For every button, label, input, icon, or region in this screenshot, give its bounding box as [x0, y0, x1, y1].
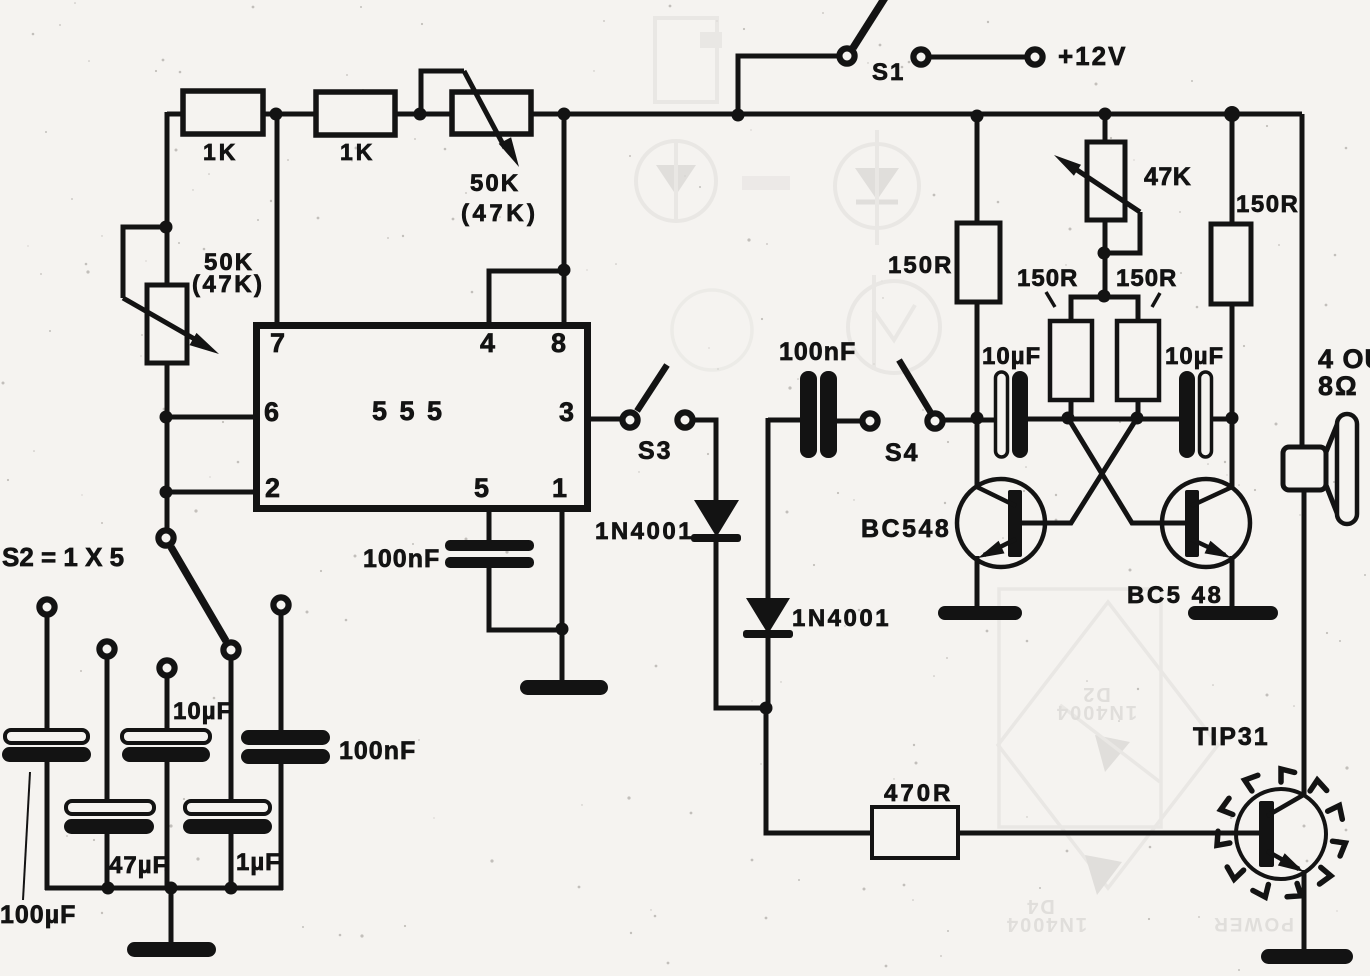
svg-text:2: 2	[265, 473, 280, 503]
wire S1 to +12V terminal	[928, 55, 1028, 60]
svg-text:3: 3	[559, 397, 574, 427]
pointer line C1 label	[23, 772, 30, 900]
switch S1 lever	[853, 0, 886, 48]
svg-text:100nF: 100nF	[779, 338, 856, 366]
svg-text:8: 8	[551, 328, 566, 358]
wire bottom rail	[45, 886, 283, 891]
ground GND1 555	[520, 680, 608, 695]
diode D1 1N4001 triangle	[694, 500, 739, 537]
svg-text:100µF: 100µF	[0, 901, 76, 929]
node junction R4/R5 split	[1098, 290, 1111, 303]
svg-text:1N4004: 1N4004	[1005, 913, 1087, 935]
svg-text:5: 5	[474, 473, 489, 503]
switch S2 lever	[171, 547, 226, 641]
wire D2 down to node	[766, 638, 771, 710]
Q1 collector lead	[977, 487, 1016, 506]
node junction bus/R6	[1224, 106, 1240, 122]
node junction R4 bottom	[1062, 412, 1075, 425]
svg-text:1: 1	[552, 473, 567, 503]
switch S2 contact 2	[99, 641, 114, 656]
wire C3 bottom	[165, 761, 170, 890]
tick R5 label	[1152, 293, 1160, 307]
wire 47K pot vertical top	[1103, 114, 1108, 146]
transistor Q2 BC548 circle	[1162, 479, 1250, 567]
wire top supply bus	[167, 112, 1302, 117]
svg-text:TIP31: TIP31	[1193, 723, 1270, 751]
node junction pin1/C6	[556, 623, 569, 636]
svg-text:1N4001: 1N4001	[792, 605, 891, 632]
svg-text:+12V: +12V	[1058, 41, 1127, 71]
node junction bus after R2	[414, 108, 427, 121]
capacitor C7 100nF plate2	[820, 371, 837, 458]
Q3 heatsink fins	[1217, 769, 1345, 897]
capacitor C9 10uF plus plate	[1179, 371, 1195, 458]
capacitor C4 1uF plus plate	[185, 801, 270, 814]
switch S2 contact 4	[223, 642, 238, 657]
ground GND2 Q1	[938, 606, 1022, 620]
wire right rail from bus to speaker	[1300, 114, 1305, 450]
switch S3 contact B	[677, 412, 692, 427]
node junction rail/C2	[102, 882, 115, 895]
switch S3 contact A	[622, 412, 637, 427]
svg-text:S1: S1	[872, 59, 905, 86]
resistor R5 150R	[1117, 321, 1159, 400]
transistor Q3 TIP31 circle	[1236, 789, 1326, 879]
wire row C9 to right rail	[1210, 417, 1234, 422]
capacitor C5 100nF plate1	[241, 730, 330, 745]
capacitor C1 100uF minus plate	[2, 747, 91, 762]
svg-text:4: 4	[480, 328, 495, 358]
wire pin1 down to ground	[560, 509, 565, 682]
wire bus to S1	[738, 56, 840, 114]
svg-text:150R: 150R	[1017, 265, 1078, 292]
wire P1 wiper diagonal	[464, 71, 505, 148]
diode D1 cathode bar	[691, 534, 741, 542]
switch S3 lever	[637, 365, 667, 411]
wire branch to D2	[766, 418, 771, 600]
svg-text:470R: 470R	[884, 780, 953, 807]
switch S4 contact A	[862, 413, 877, 428]
node junction bus/S1	[732, 109, 745, 122]
diode D2 cathode bar	[743, 630, 793, 638]
svg-text:1N4004: 1N4004	[1055, 701, 1137, 723]
capacitor C6 100nF plate1	[445, 540, 534, 551]
capacitor C5 100nF plate2	[241, 749, 330, 764]
wire pin6 horizontal	[167, 415, 256, 420]
ground GND3 Q2	[1188, 606, 1278, 620]
svg-text:1N4001: 1N4001	[595, 518, 694, 545]
wire C7 to S4	[837, 419, 863, 424]
node junction D1/D2	[760, 702, 773, 715]
IC U1 555 box	[257, 326, 588, 509]
wire R4 bottom	[1069, 400, 1074, 418]
capacitor C2 47uF plus plate	[66, 801, 154, 814]
svg-text:6: 6	[264, 397, 279, 427]
svg-text:10µF: 10µF	[1165, 343, 1224, 370]
wire right 150R vertical	[1230, 114, 1235, 488]
svg-text:1K: 1K	[203, 139, 238, 165]
wire speaker to TIP31 collector	[1302, 488, 1307, 796]
Q1 base bar	[1008, 490, 1022, 557]
capacitor C6 100nF plate2	[445, 557, 534, 568]
ground GND5 output	[1261, 949, 1353, 964]
potentiometer P3 47K body	[1087, 142, 1125, 220]
wire P3 wiper diagonal	[1068, 164, 1140, 212]
node junction rail/C3	[165, 882, 178, 895]
node junction left rail / P2 wiper loop	[160, 221, 173, 234]
svg-text:150R: 150R	[888, 252, 953, 279]
resistor R4 150R	[1050, 321, 1092, 400]
svg-text:50K: 50K	[470, 170, 520, 197]
terminal +12V	[1027, 49, 1042, 64]
wire node down to 470R row	[766, 708, 872, 833]
svg-text:5 5 5: 5 5 5	[372, 396, 445, 426]
wire left 150R vertical	[975, 114, 980, 488]
wire Q1 emitter to ground	[975, 556, 980, 608]
capacitor C8 10uF plus plate	[1012, 371, 1028, 458]
Q3 collector lead	[1267, 794, 1305, 816]
capacitor C2 47uF minus plate	[64, 819, 154, 834]
switch S4 lever	[899, 360, 931, 413]
wire C6 to ground node	[489, 567, 562, 630]
Q2 emitter arrowhead	[1205, 541, 1232, 558]
svg-text:100nF: 100nF	[363, 545, 440, 573]
node junction rail/pin2	[160, 486, 173, 499]
wire C1 bottom	[45, 761, 50, 890]
switch S2 contact 1	[39, 599, 54, 614]
speaker horn cone lines	[1326, 420, 1339, 518]
speaker box	[1283, 447, 1326, 490]
speaker horn mouth	[1337, 414, 1357, 524]
node junction R5 bottom	[1131, 412, 1144, 425]
resistor R3 150R	[957, 223, 1000, 302]
wire left rail down from bus	[165, 112, 170, 534]
capacitor C4 1uF minus plate	[183, 819, 272, 834]
P3 wiper arrowhead	[1054, 155, 1081, 176]
Q3 emitter lead	[1267, 851, 1299, 869]
wire S3 to D1	[692, 420, 716, 502]
wire D2 branch to C7	[768, 418, 801, 423]
svg-text:S3: S3	[638, 437, 673, 465]
wire Q2 emitter to ground	[1230, 556, 1235, 608]
wire pin2 horizontal	[167, 490, 256, 495]
svg-text:(47K): (47K)	[192, 271, 265, 298]
wire pin7 from bus junction down to 555 pin 7	[275, 114, 280, 326]
wire C5 bottom	[279, 762, 284, 890]
node junction rail/C4	[225, 882, 238, 895]
P1 wiper arrowhead	[499, 137, 519, 167]
node junction pin4/pin8	[558, 264, 571, 277]
wire R5 bottom	[1136, 400, 1141, 418]
capacitor C9 10uF minus plate	[1200, 372, 1212, 457]
wire P2 wiper diagonal	[123, 298, 205, 345]
transistor Q1 BC548 circle	[957, 479, 1045, 567]
svg-text:1µF: 1µF	[236, 849, 281, 876]
resistor R2 1K	[316, 92, 395, 135]
potentiometer P1 50K body	[452, 92, 531, 134]
node junction bus/R3	[971, 110, 984, 123]
svg-text:4 OU: 4 OU	[1318, 344, 1370, 374]
Q2 collector lead	[1191, 487, 1232, 506]
wire C2 bottom	[105, 833, 110, 890]
svg-text:7: 7	[270, 328, 285, 358]
wire D1 down to node	[716, 542, 766, 708]
wire P3 wiper return	[1104, 212, 1140, 253]
resistor R6 150R	[1211, 224, 1251, 304]
wire Q3 emitter to ground	[1302, 870, 1307, 951]
Q3 emitter arrowhead	[1278, 853, 1304, 872]
switch S1 contact B	[913, 49, 928, 64]
Q2 base bar	[1185, 490, 1199, 557]
wire wiper jog of P1	[421, 71, 464, 114]
wire P3 bottom to node	[1103, 220, 1108, 298]
switch S2 contact 3	[159, 660, 174, 675]
svg-text:47µF: 47µF	[109, 852, 168, 879]
capacitor C7 100nF plate1	[800, 371, 817, 458]
switch S2 common contact	[158, 530, 173, 545]
Q1 emitter arrowhead	[978, 541, 1005, 558]
wire base cross right-to-left	[1022, 418, 1137, 523]
Q1 emitter lead	[984, 539, 1016, 555]
tick R4 label	[1046, 292, 1055, 307]
capacitor C3 10uF plus plate	[122, 730, 210, 743]
node junction bus/P1/pin8	[558, 108, 571, 121]
svg-text:BC548: BC548	[861, 515, 951, 543]
node junction bus/1K/1K/pin7	[270, 108, 283, 121]
node junction rail/pin6	[160, 411, 173, 424]
svg-text:100nF: 100nF	[339, 737, 416, 765]
wire R4/R5 split bar	[1071, 297, 1138, 321]
svg-text:47K: 47K	[1144, 163, 1191, 191]
svg-text:8Ω: 8Ω	[1318, 371, 1359, 401]
switch S2 contact 5	[273, 597, 288, 612]
wire S2c3 down	[165, 676, 170, 732]
svg-text:(47K): (47K)	[461, 200, 539, 227]
svg-text:150R: 150R	[1236, 191, 1299, 218]
switch S1 contact A	[839, 48, 854, 63]
svg-text:S2 = 1 X 5: S2 = 1 X 5	[2, 542, 124, 572]
resistor R7 470R	[872, 807, 958, 858]
Q2 emitter lead	[1191, 539, 1225, 555]
P2 wiper arrowhead	[190, 333, 220, 354]
wire S2c4 down	[229, 658, 234, 803]
wire pin3 to S3	[588, 417, 623, 422]
node junction Q2 collector row	[1226, 412, 1239, 425]
wire C4 bottom	[229, 833, 234, 890]
wire S4 to Q1 collector node	[942, 418, 997, 423]
svg-text:S4: S4	[885, 439, 920, 467]
wire S2c1 down	[45, 615, 50, 732]
wire pin4 jog	[489, 271, 564, 326]
svg-text:BC5 48: BC5 48	[1127, 582, 1223, 609]
wire S2c2 down	[105, 657, 110, 803]
wire base cross left-to-right	[1068, 418, 1187, 523]
ground GND4 cap bank	[127, 942, 216, 957]
wire row C8 to mid resistors	[1028, 417, 1181, 422]
wire R7 to Q3 base	[958, 831, 1259, 836]
wire S2c5 down	[279, 613, 284, 732]
svg-text:150R: 150R	[1116, 265, 1177, 292]
wire pin8 vertical	[562, 114, 567, 326]
capacitor C3 10uF minus plate	[122, 747, 210, 762]
svg-text:1K: 1K	[340, 139, 375, 165]
wire P2 wiper loop	[123, 227, 166, 298]
resistor R1 1K	[183, 91, 263, 134]
wire pin5 down	[487, 509, 492, 541]
Q3 base bar	[1259, 801, 1274, 867]
node junction Q1 collector row	[971, 412, 984, 425]
svg-text:10µF: 10µF	[982, 343, 1041, 370]
switch S4 contact B	[927, 413, 942, 428]
svg-text:POWER: POWER	[1212, 913, 1294, 934]
wire ground stem	[169, 888, 174, 946]
node junction bus/P3	[1099, 108, 1112, 121]
potentiometer P2 50K(47K) body	[147, 285, 187, 363]
capacitor C8 10uF minus plate	[996, 372, 1008, 457]
svg-text:10µF: 10µF	[173, 698, 232, 725]
node junction P3 wiper	[1098, 247, 1111, 260]
capacitor C1 100uF plus plate	[5, 730, 88, 743]
diode D2 1N4001 triangle	[746, 598, 790, 634]
